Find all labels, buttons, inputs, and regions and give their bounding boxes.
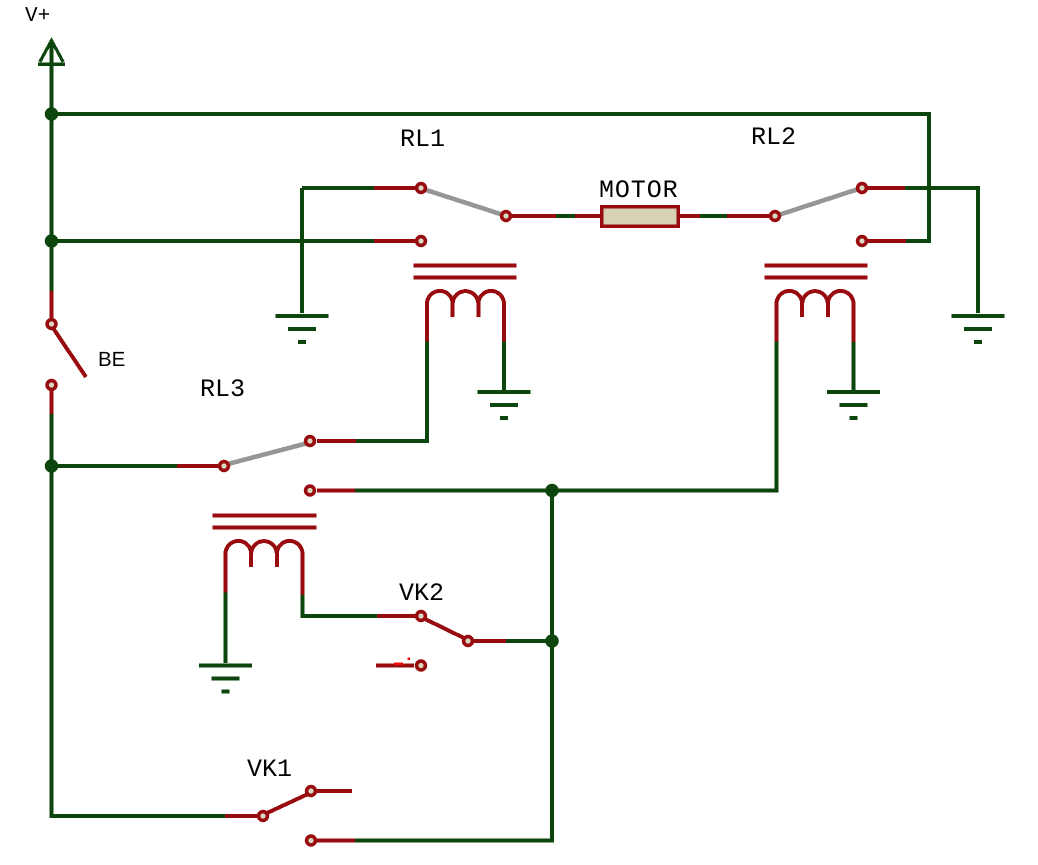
wire: RL1 coil left lead down and left to RL3 NO pin: [356, 342, 427, 442]
relay coil RL1: [414, 266, 517, 342]
svg-text:MOTOR: MOTOR: [599, 176, 679, 205]
relay coil RL3: [213, 516, 317, 596]
VK1 stub lead: [317, 789, 352, 793]
svg-text:RL1: RL1: [400, 125, 445, 154]
BE lower pin lead: [50, 391, 54, 414]
VK2 actuator: [424, 619, 466, 640]
VK1 pin open: [307, 836, 316, 845]
wire: left vertical from V+ arrow down to BE (green upper part): [50, 40, 54, 291]
wire: RL3 lower contact net to RL2 coil junction: [355, 489, 552, 493]
RL1 pin common: [417, 184, 426, 193]
svg-text:VK1: VK1: [247, 755, 292, 784]
wire: RL2 coil right lead down to ground: [852, 342, 856, 390]
VK2 bright mark dot: [408, 658, 410, 660]
RL1 pin lead NC: [374, 239, 415, 243]
relay contact RL2: [771, 184, 906, 246]
VK1 pin lead left: [225, 814, 257, 818]
RL3 pin lead NC: [317, 489, 355, 493]
VK1 pin throw: [307, 787, 316, 796]
RL2 pin lead NO: [868, 186, 905, 190]
wire: top rail V+ from left vertical to RL2 NC corner: [52, 114, 930, 241]
RL2 pin common: [771, 212, 780, 221]
RL3 pin lead common: [177, 464, 218, 468]
wire: VK2 output to center vertical: [506, 639, 552, 643]
VK1 lower pin lead: [317, 839, 355, 843]
RL3 coil right pin lead: [301, 552, 305, 595]
motor pin lead left: [575, 214, 601, 218]
motor rectangle: [602, 207, 679, 227]
junction at V+ top rail: [45, 107, 59, 121]
RL1 actuator: [423, 189, 505, 216]
junction at second rail: [45, 234, 59, 248]
wire: RL3 coil left lead down to ground: [224, 593, 228, 664]
BE upper pin lead: [50, 291, 54, 318]
RL2 coil left pin lead: [775, 302, 779, 342]
RL3 coil winding: [226, 541, 303, 554]
RL3 pin NO: [306, 437, 315, 446]
VK2 pin throw: [464, 637, 473, 646]
svg-text:RL3: RL3: [200, 375, 245, 404]
VK2 pin lead left: [377, 614, 415, 618]
ground (RL2 coil): [827, 392, 880, 418]
relay coil RL2: [765, 266, 868, 343]
RL3 actuator: [226, 443, 308, 465]
wire: RL2 NO pin to right ground corner: [905, 188, 978, 313]
ground (RL1 coil): [478, 392, 531, 418]
switch VK2: [376, 612, 506, 670]
RL1 pin lead NO: [512, 214, 556, 218]
RL3 pin lead NO: [317, 439, 356, 443]
wire: BE lower lead down to RL3 junction and on to VK1 corner: [52, 414, 226, 816]
switch BE: [47, 291, 86, 414]
VK2 pin lead right: [474, 639, 506, 643]
motor body: [575, 207, 700, 227]
VK1 actuator: [266, 794, 308, 814]
relay contact RL1: [374, 184, 556, 246]
RL2 actuator: [777, 189, 860, 216]
junction at RL3 lower net / center vertical: [545, 484, 559, 498]
RL2 core bar top: [765, 264, 868, 268]
RL2 coil winding: [777, 291, 854, 304]
RL1 core bar bottom: [414, 276, 517, 280]
wire: RL1 common net green from ground corner to pin lead: [302, 186, 374, 190]
RL1 coil right pin lead: [502, 302, 506, 342]
RL3 core bar top: [213, 514, 317, 518]
wire: RL2 coil left lead down to y=490 and left to junction: [552, 342, 777, 491]
RL3 core bar bottom: [213, 526, 317, 530]
svg-text:VK2: VK2: [399, 579, 444, 608]
RL3 pin NC: [306, 486, 315, 495]
relay contact RL3: [177, 437, 356, 495]
wire: RL1 coil right lead down to ground: [502, 342, 506, 391]
wire: motor to RL2 pin lead red: [727, 214, 769, 218]
VK2 pin pole: [417, 612, 426, 621]
power symbol V+ arrow: [38, 41, 65, 65]
wire: RL1 NO pin to motor left: [556, 214, 575, 218]
ground (RL3 coil): [199, 666, 252, 692]
wire: RL3 common from left vertical: [52, 464, 178, 468]
RL1 core bar top: [414, 264, 517, 268]
RL2 pin NO: [858, 184, 867, 193]
junction at RL3 common: [45, 459, 59, 473]
svg-text:V+: V+: [25, 5, 50, 28]
wire: second rail y=241 from left vertical toward RL1 NC pin: [52, 239, 375, 243]
RL2 coil right pin lead: [852, 302, 856, 342]
BE pin upper: [47, 320, 56, 329]
wire: vertical down to left ground: [300, 188, 304, 313]
switch VK1: [225, 787, 355, 845]
svg-text:RL2: RL2: [751, 123, 796, 152]
wire: center vertical x=552: [550, 491, 554, 642]
RL1 coil left pin lead: [425, 302, 429, 342]
RL2 pin NC: [858, 237, 867, 246]
svg-text:BE: BE: [98, 348, 125, 371]
RL1 pin lead common: [374, 186, 415, 190]
VK2 pin open: [417, 661, 426, 670]
VK2 bright mark dash: [394, 663, 403, 666]
RL1 coil winding: [427, 291, 504, 304]
BE actuator: [53, 328, 86, 377]
motor pin lead right: [679, 214, 700, 218]
wire: RL3 coil right lead to VK2 pin: [303, 595, 378, 616]
wire: motor right to RL2 common lead: [700, 214, 727, 218]
ground (RL1 common): [276, 316, 329, 342]
wire: VK1 lower contact to center vertical: [355, 641, 552, 841]
ground (RL2 right): [952, 316, 1005, 342]
RL3 coil left pin lead: [224, 552, 228, 593]
RL1 pin NC: [417, 237, 426, 246]
RL2 core bar bottom: [765, 276, 868, 280]
VK2 open pin lead: [376, 664, 414, 668]
RL3 pin common: [220, 462, 229, 471]
BE pin lower: [47, 381, 56, 390]
RL1 pin NO: [502, 212, 511, 221]
junction at VK2 output / center vertical: [545, 634, 559, 648]
VK1 pin pole: [259, 812, 268, 821]
RL2 pin lead NC: [868, 239, 906, 243]
